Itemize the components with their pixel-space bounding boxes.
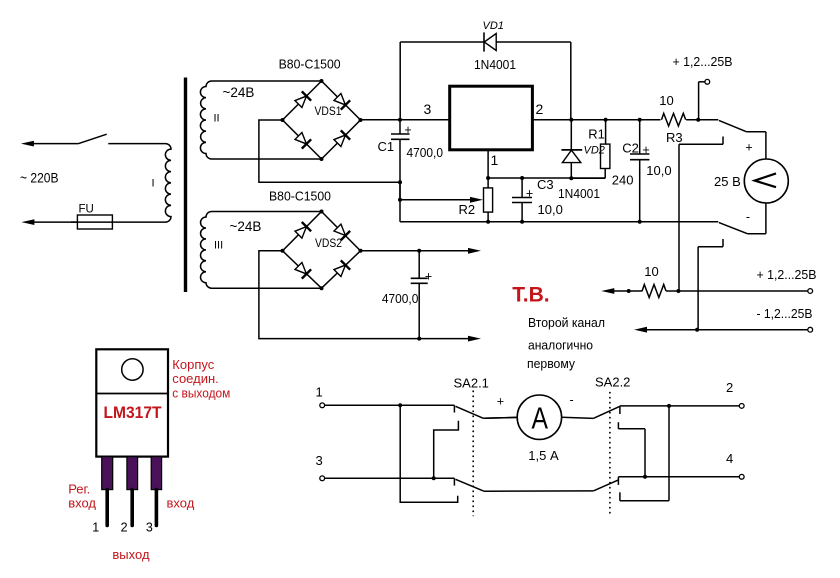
svg-text:B80-C1500: B80-C1500 [279, 57, 341, 72]
svg-text:-: - [570, 393, 574, 407]
svg-text:Рег.: Рег. [68, 482, 90, 497]
svg-text:3: 3 [146, 521, 153, 535]
svg-text:выход: выход [112, 547, 150, 562]
svg-text:-: - [746, 210, 750, 224]
svg-text:с выходом: с выходом [172, 386, 230, 401]
svg-text:соедин.: соедин. [172, 371, 218, 386]
svg-text:Второй канал: Второй канал [528, 315, 605, 330]
svg-text:1N4001: 1N4001 [558, 186, 600, 201]
svg-text:LM317T: LM317T [104, 404, 162, 422]
svg-text:~24В: ~24В [223, 85, 255, 100]
svg-text:+: + [404, 123, 411, 137]
svg-text:VDS2: VDS2 [315, 238, 342, 250]
svg-text:R2: R2 [459, 202, 476, 217]
svg-text:первому: первому [527, 356, 575, 371]
svg-text:240: 240 [612, 173, 634, 188]
svg-text:1: 1 [491, 152, 499, 168]
svg-text:VD1: VD1 [483, 20, 504, 32]
svg-text:2: 2 [536, 101, 544, 117]
svg-text:10: 10 [644, 264, 658, 279]
svg-text:I: I [152, 178, 155, 190]
svg-text:~ 220В: ~ 220В [20, 169, 59, 185]
svg-text:+ 1,2...25В: + 1,2...25В [757, 267, 817, 282]
svg-text:+ 1,2...25В: + 1,2...25В [673, 54, 733, 69]
svg-text:FU: FU [79, 204, 94, 216]
svg-text:10,0: 10,0 [646, 163, 671, 178]
svg-text:А: А [532, 400, 549, 435]
svg-text:+: + [497, 395, 504, 409]
svg-text:1,5 А: 1,5 А [528, 448, 559, 463]
svg-text:VDS1: VDS1 [315, 106, 342, 118]
svg-text:10: 10 [659, 93, 673, 108]
svg-text:SA2.2: SA2.2 [595, 375, 630, 390]
svg-text:Корпус: Корпус [172, 357, 214, 372]
svg-text:3: 3 [316, 453, 323, 468]
svg-text:SA2.1: SA2.1 [454, 375, 489, 390]
svg-text:1: 1 [92, 521, 99, 535]
svg-text:+: + [642, 143, 649, 157]
svg-text:C1: C1 [378, 139, 395, 154]
svg-text:10,0: 10,0 [538, 202, 563, 217]
svg-text:B80-C1500: B80-C1500 [269, 188, 331, 203]
svg-text:4700,0: 4700,0 [407, 145, 444, 160]
svg-text:R3: R3 [666, 130, 683, 145]
svg-text:4: 4 [726, 451, 733, 466]
svg-text:вход: вход [167, 496, 195, 511]
svg-text:25 В: 25 В [714, 174, 741, 189]
svg-text:C3: C3 [537, 177, 554, 192]
svg-text:вход: вход [68, 496, 96, 511]
svg-text:III: III [214, 240, 223, 252]
svg-text:1N4001: 1N4001 [474, 57, 516, 72]
svg-text:2: 2 [726, 380, 733, 395]
svg-text:- 1,2...25В: - 1,2...25В [757, 306, 813, 321]
svg-text:+: + [745, 141, 752, 155]
svg-text:1: 1 [316, 384, 323, 399]
svg-text:+: + [425, 270, 432, 284]
svg-text:R1: R1 [588, 127, 605, 142]
svg-text:аналогично: аналогично [528, 338, 593, 353]
svg-text:4700,0: 4700,0 [382, 291, 419, 306]
svg-text:3: 3 [424, 101, 432, 117]
svg-text:~24В: ~24В [230, 219, 262, 234]
svg-text:VD2: VD2 [584, 144, 605, 156]
svg-text:Т.В.: Т.В. [512, 283, 549, 306]
svg-text:C2: C2 [622, 141, 639, 156]
svg-text:II: II [214, 113, 220, 125]
svg-text:2: 2 [121, 521, 128, 535]
svg-text:+: + [526, 186, 533, 200]
